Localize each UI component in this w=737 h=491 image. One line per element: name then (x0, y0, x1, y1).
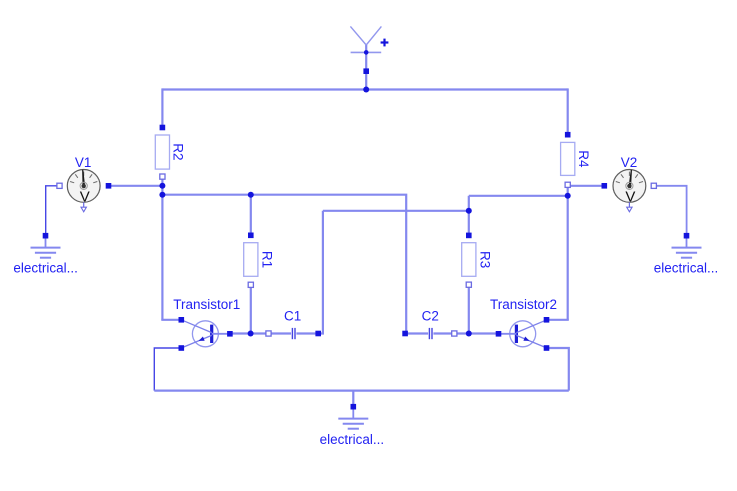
transistor Transistor2 base pin (496, 331, 502, 337)
supply pin (363, 68, 369, 74)
wire V1 to ground G1 (46, 186, 60, 236)
resistor R1 pin p (248, 233, 254, 239)
wire R3 to base rail 2 (468, 285, 470, 334)
capacitor C1 pin n (315, 331, 321, 337)
wire T2 collector (547, 319, 569, 321)
junction base rail 1 (248, 331, 254, 337)
svg-text:V: V (625, 189, 635, 206)
resistor R3 body (462, 243, 476, 277)
wire V2 to ground G2 (654, 186, 687, 236)
svg-text:Transistor1: Transistor1 (173, 297, 240, 312)
junction top rail (363, 87, 369, 93)
wire T1 base rail (230, 332, 269, 334)
wire node nC1 to V1 (109, 185, 163, 187)
supply plus sign (381, 39, 389, 47)
svg-text:R4: R4 (576, 150, 591, 168)
wire T1 emitter (154, 348, 181, 391)
wire branch to node nC2 (323, 210, 469, 212)
svg-text:V1: V1 (75, 155, 92, 170)
resistor R2 pin p (160, 125, 166, 131)
junction R1 tap (248, 192, 254, 198)
transistor Transistor1 body (181, 320, 230, 348)
wire R1 to base rail 1 (250, 285, 252, 334)
capacitor C2 plates (429, 328, 432, 339)
wire C2 left stub (405, 332, 428, 334)
voltmeter V2 pin p (602, 183, 608, 189)
resistor R2 pin n (160, 174, 165, 179)
transistor Transistor1 emitter pin (179, 345, 185, 351)
junction node nC2 (565, 193, 571, 199)
capacitor C1 plates (292, 328, 295, 339)
junction node nC1 lower (159, 192, 165, 198)
svg-text:electrical...: electrical... (654, 260, 719, 275)
junction branch nC2 (466, 208, 472, 214)
wire C2 right stub (433, 332, 454, 334)
svg-text:C1: C1 (284, 309, 301, 324)
transistor Transistor1 collector pin (179, 317, 185, 323)
resistor R2 body (155, 135, 169, 169)
svg-text:V: V (80, 189, 90, 206)
transistor Transistor2 collector pin (544, 317, 550, 323)
wire node nC1 to R1 (250, 195, 252, 236)
svg-text:R2: R2 (171, 143, 186, 160)
svg-text:R3: R3 (477, 251, 492, 268)
voltmeter V2 body (613, 170, 646, 212)
svg-text:R1: R1 (259, 251, 274, 268)
wire R4 to V2 (568, 185, 605, 187)
wire top rail to R2 (161, 88, 163, 127)
voltmeter V1 pin n (106, 183, 112, 189)
wire bottom rail to ground G3 (352, 391, 354, 407)
resistor R1 pin n (248, 282, 253, 287)
svg-text:Transistor2: Transistor2 (490, 297, 557, 312)
wire C2 feed stub (405, 332, 406, 334)
voltmeter V2 pin n (651, 183, 656, 188)
positive supply pin V+ symbol (350, 26, 381, 52)
transistor Transistor2 emitter pin (544, 345, 550, 351)
wire C1 left stub (269, 332, 292, 334)
ground G2 symbol (672, 236, 702, 258)
resistor R4 pin p (565, 132, 571, 138)
ground G1 symbol (31, 236, 61, 258)
resistor R4 pin n (565, 182, 570, 187)
capacitor C2 pin p (402, 331, 408, 337)
ground G2 pin (684, 233, 690, 239)
wire R4 to node nC2 col (567, 185, 569, 320)
svg-text:V2: V2 (621, 155, 638, 170)
wire supply to top rail (365, 45, 367, 90)
wire node nC2 vertical (468, 196, 470, 236)
capacitor C1 pin p (266, 331, 271, 336)
wire T2 emitter (547, 348, 569, 391)
resistor R3 pin p (466, 233, 472, 239)
wire C1 right stub (296, 332, 318, 334)
supply node dot (364, 50, 369, 55)
wire C1 to branch (318, 211, 323, 334)
resistor R4 body (561, 142, 575, 175)
ground G3 pin (351, 404, 357, 410)
resistor R1 body (244, 243, 258, 277)
wire top rail to R4 (567, 88, 569, 134)
junction base rail 2 (466, 331, 472, 337)
svg-text:electrical...: electrical... (13, 260, 78, 275)
resistor R3 pin n (466, 282, 471, 287)
junction node nC1 upper (159, 183, 165, 189)
transistor Transistor2 body (498, 320, 547, 348)
voltmeter V1 pin p (57, 183, 62, 188)
wire node nC1 cross to C2 feed (162, 195, 406, 334)
svg-text:C2: C2 (422, 309, 439, 324)
wire node nC2 to R4 (469, 195, 568, 197)
svg-text:electrical...: electrical... (320, 432, 385, 447)
transistor Transistor1 base pin (227, 331, 233, 337)
wire T1 collector (161, 319, 181, 321)
wire top rail (162, 88, 567, 90)
ground G3 symbol (338, 407, 368, 429)
ground G1 pin (43, 233, 49, 239)
wire bottom rail (154, 390, 569, 392)
wire R2 to node nC1 (161, 177, 163, 320)
wire C2 to T2 base (454, 332, 498, 334)
voltmeter V1 body (67, 170, 100, 212)
capacitor C2 pin n (452, 331, 457, 336)
